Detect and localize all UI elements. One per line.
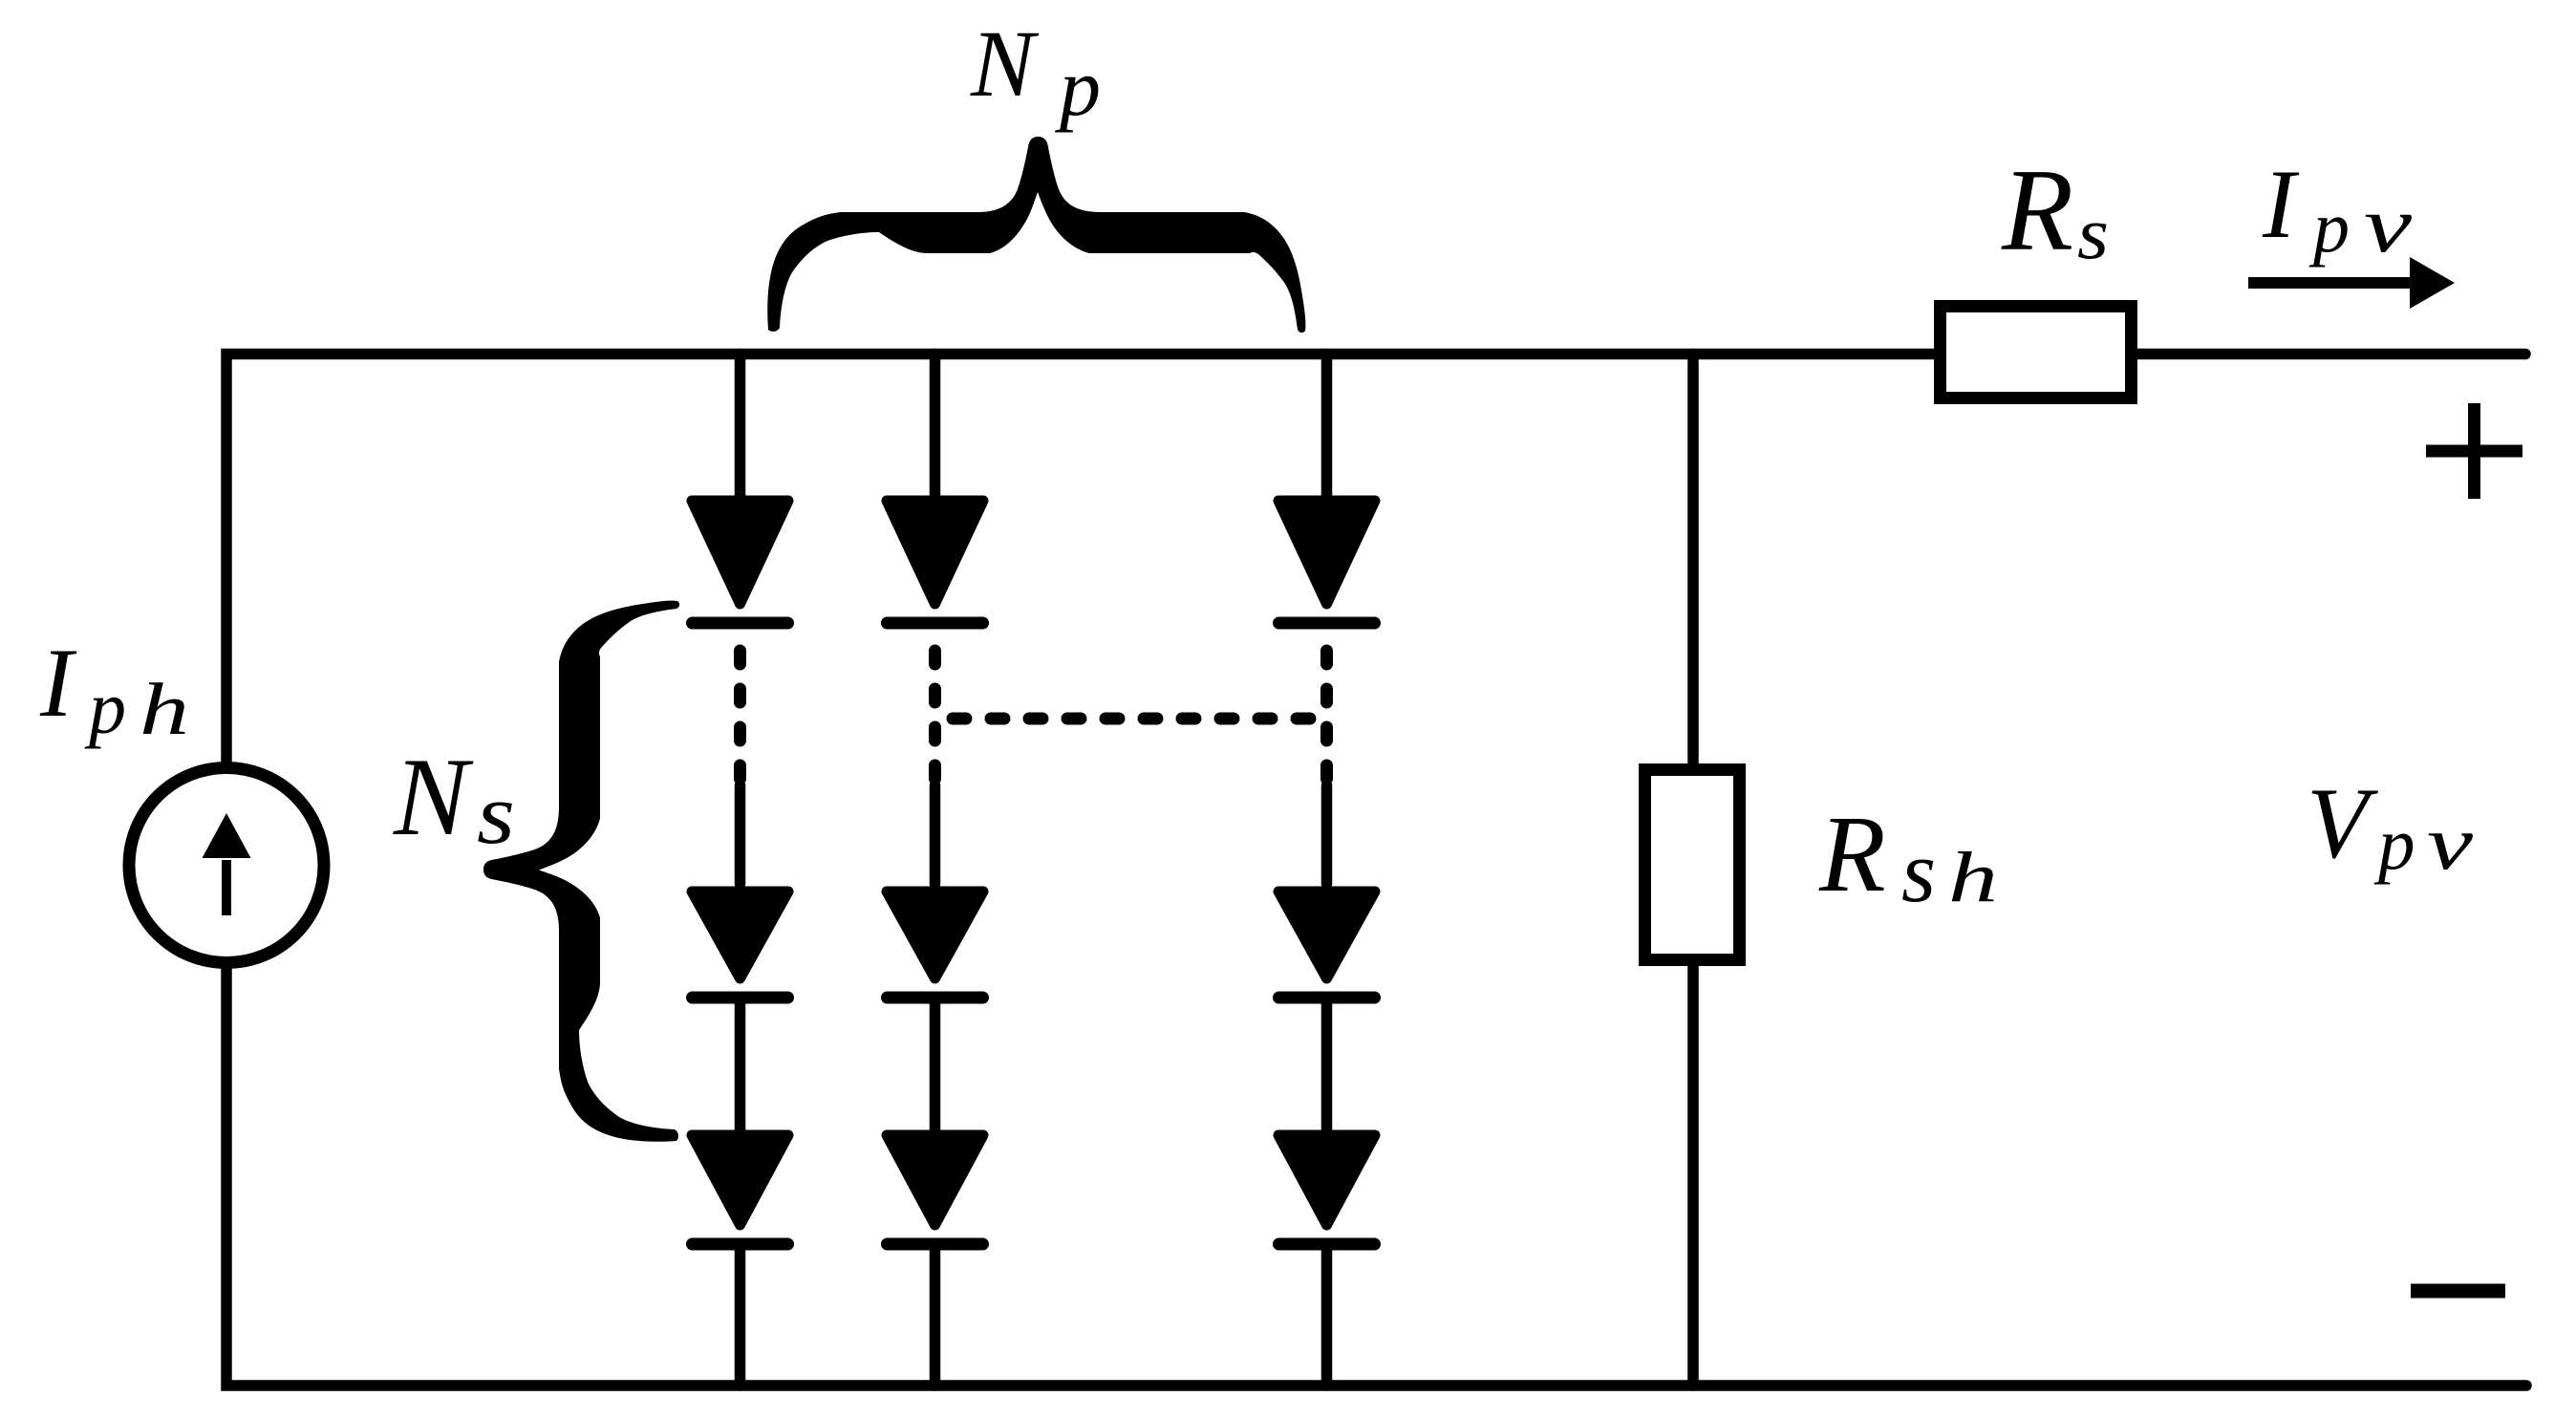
wire column 1 middle <box>735 998 746 1132</box>
wire dashed series-continuation column 2 <box>929 644 941 782</box>
diode D3a <box>1278 501 1375 623</box>
wire column 3 middle <box>1321 998 1333 1132</box>
brace N_p <box>767 137 1305 333</box>
wire column 3 bottom <box>1321 1244 1333 1386</box>
minus terminal <box>2411 1284 2505 1299</box>
diode D3b <box>1278 892 1375 998</box>
wire dashed series-continuation column 1 <box>734 644 746 782</box>
wire dashed series-continuation column 3 <box>1320 644 1333 782</box>
current source I_ph <box>129 768 324 963</box>
brace N_s <box>483 601 679 1142</box>
resistor R_s <box>1941 307 2132 398</box>
wire column 2 middle <box>930 998 941 1132</box>
diode D1c <box>692 1135 788 1244</box>
diode D2b <box>887 892 983 998</box>
arrow I_pv <box>2248 257 2455 309</box>
wire column 2 bottom <box>930 1244 941 1386</box>
wire column 2 top <box>930 354 941 499</box>
diode D2a <box>887 501 983 623</box>
diode D1a <box>692 501 788 623</box>
diode D3c <box>1278 1135 1375 1244</box>
resistor R_sh <box>1645 770 1740 960</box>
wire column 3 top <box>1321 354 1333 499</box>
diode D2c <box>887 1135 983 1244</box>
wire R_sh top <box>1687 354 1699 765</box>
wire top bus + left branch + bottom bus <box>226 354 2526 1386</box>
wire R_sh bottom <box>1687 966 1699 1386</box>
wire dashed link col2-col3 <box>946 713 1326 725</box>
wire column 1 bottom <box>735 1244 746 1386</box>
plus terminal <box>2426 403 2522 499</box>
wire column 1 top <box>735 354 746 499</box>
diode D1b <box>692 892 788 998</box>
